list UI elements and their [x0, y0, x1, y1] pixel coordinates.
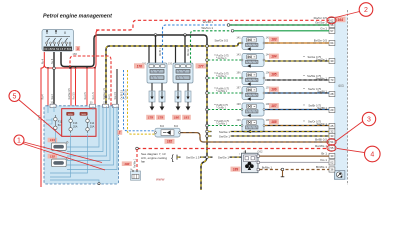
fusebox exit node [98, 183, 100, 185]
svg-text:164: 164 [337, 18, 343, 22]
ECU pin 30 [329, 58, 335, 63]
svg-text:Ge/Bl 0.5: Ge/Bl 0.5 [125, 89, 128, 100]
ECU pin 32 [329, 129, 335, 134]
wire Br/Ws 1 to pin 36 [260, 169, 330, 171]
svg-text:33: 33 [330, 134, 334, 138]
junction [136, 147, 139, 150]
ECU pin 57 [329, 28, 335, 33]
wire Ge/Bl 0.5 (yellow dashed to knock sensor link) [128, 70, 156, 134]
coil 177 supply drop [184, 35, 186, 63]
sensor pins [257, 155, 259, 171]
svg-text:02: 02 [330, 161, 334, 165]
svg-text:135: 135 [50, 154, 55, 158]
fusebox border pin boxes [50, 104, 56, 107]
svg-text:180: 180 [174, 116, 179, 120]
wire red bus left [41, 65, 45, 188]
svg-text:Sw 4: Sw 4 [52, 58, 54, 64]
spark plug 179 [161, 83, 163, 91]
wire Br/Ge 0.5 valve 183 to pin 64 [265, 42, 329, 44]
svg-text:36: 36 [330, 168, 334, 172]
wire Sw/Bl 1 valve 187 to pin 29 [265, 109, 329, 111]
red branch verticals into fusebox [47, 67, 49, 69]
svg-text:188: 188 [271, 120, 277, 124]
svg-text:2: 2 [364, 7, 368, 14]
wire Ro 4 from switch [44, 30, 99, 68]
wire Sw/Ge 1.5 [176, 155, 178, 160]
junction [281, 168, 284, 171]
label 187 [269, 103, 279, 108]
wire Sw/Ge 1 to pin 32 [206, 130, 209, 133]
svg-text:Br/Ws 1: Br/Ws 1 [262, 165, 273, 169]
label 185 [269, 72, 279, 77]
svg-text:20A: 20A [73, 125, 78, 128]
wire Ro/Gr 0.5 (red dashed, ignition feed to ECU pin 62) [96, 20, 329, 30]
svg-text:**: ** [303, 120, 305, 123]
svg-text:Ws/Bl 1: Ws/Bl 1 [160, 47, 162, 56]
ECU pin 02 [329, 160, 335, 165]
fuse group highlight box [62, 109, 96, 137]
coil drops from Sw/Ge rail [148, 45, 150, 47]
ECU pin 73 [329, 77, 335, 82]
svg-text:62: 62 [330, 19, 334, 23]
switch internals [46, 32, 71, 47]
svg-text:5: 5 [13, 93, 17, 100]
label 134 [48, 138, 58, 143]
label 182 [165, 139, 175, 144]
svg-text:Ro/Gr 0.5: Ro/Gr 0.5 [314, 16, 328, 20]
ECU connector band 603 [334, 17, 348, 181]
svg-text:3: 3 [77, 47, 79, 51]
svg-text:* Gn/Ge 1: * Gn/Ge 1 [216, 75, 227, 78]
svg-text:Ro/Ws 1: Ro/Ws 1 [315, 144, 327, 148]
wire Sw/Ge (ignition-on rail from fusebox) [106, 43, 242, 106]
svg-text:186: 186 [72, 52, 77, 56]
label 3 [76, 46, 81, 51]
relay 135 [52, 159, 67, 166]
svg-text:32: 32 [330, 130, 334, 134]
svg-text:Ro 0.5: Ro 0.5 [72, 92, 75, 100]
fusebox internal bus wiring [67, 106, 117, 169]
svg-text:197: 197 [236, 87, 241, 90]
label 190 [122, 161, 132, 166]
svg-text:20A: 20A [90, 125, 95, 128]
svg-text:29: 29 [330, 108, 334, 112]
ECU pin 28 [329, 91, 335, 96]
wire Sw/Ge 1 to sensor 189 [208, 156, 242, 158]
svg-text:Sw/Ge 1.5: Sw/Ge 1.5 [186, 155, 200, 159]
svg-text:Sw/Or 1: Sw/Or 1 [317, 122, 328, 126]
label 176 [134, 63, 145, 68]
wire Gn 1 to pin 57 [234, 30, 330, 32]
component 190 [131, 171, 141, 180]
wire Gn/Sw 1 to pin 58 [230, 24, 330, 26]
svg-text:fan: fan [141, 159, 146, 163]
wire [0, 0, 400, 190]
clover symbol [245, 162, 254, 170]
svg-text:* Gn/Ws 1: * Gn/Ws 1 [216, 90, 228, 93]
wire Br 1 to pin 30 [260, 155, 330, 157]
svg-text:Sw/Ws 1: Sw/Ws 1 [316, 76, 328, 80]
svg-text:Sw/Ge 1: Sw/Ge 1 [218, 155, 229, 159]
svg-text:184: 184 [271, 55, 277, 59]
svg-text:Sw 2.5: Sw 2.5 [114, 92, 117, 100]
fusebox 2 outline [44, 106, 119, 184]
ECU pin 36 [329, 167, 335, 172]
ECU pin 30 [329, 153, 335, 158]
valve 183 feed (Sw/Ge rail end) [206, 45, 209, 48]
wire Br/Bl 0.5 from 182 to pin 54 [181, 133, 330, 142]
spark plug 178 [151, 83, 153, 91]
svg-text:* Gn/Br 1: * Gn/Br 1 [216, 107, 227, 110]
wire Sw/Or 1 valve 188 to pin 25 [265, 125, 329, 127]
svg-text:G62: G62 [257, 150, 263, 154]
svg-text:30: 30 [330, 154, 334, 158]
label 177 [196, 63, 207, 68]
svg-text:Ro 4: Ro 4 [43, 58, 45, 64]
wire Sw/Ge vertical distribution [201, 46, 207, 190]
ECU pin 55 [329, 145, 335, 150]
svg-text:143: 143 [236, 54, 241, 57]
wire Sw/Bl 1 valve 186 to pin 28 [265, 92, 329, 94]
svg-text:604: 604 [160, 125, 165, 128]
svg-text:73: 73 [330, 78, 334, 82]
svg-text:Ws/Gn 1: Ws/Gn 1 [201, 26, 213, 30]
wire Ro 4 second feed [70, 56, 111, 106]
svg-text:www: www [155, 178, 165, 182]
callout 1 [24, 142, 103, 163]
svg-text:Ro/Sw 0.5: Ro/Sw 0.5 [68, 88, 71, 100]
component 182 [155, 128, 180, 137]
valve 183 [242, 37, 264, 50]
svg-text:Sw/Ge 1.5: Sw/Ge 1.5 [103, 88, 106, 100]
ECU pin 54 [329, 139, 335, 144]
svg-text:5A: 5A [58, 124, 61, 127]
svg-text:* Gn/Ws 1: * Gn/Ws 1 [216, 123, 228, 126]
coil 176 supply drop [155, 35, 157, 63]
svg-text:**: ** [303, 56, 305, 59]
svg-text:179: 179 [158, 116, 163, 120]
label 164 [335, 17, 346, 23]
wire Ws/Bl 1 (blue dashed from coil 176) [163, 25, 229, 63]
svg-text:Sw/Bl 1: Sw/Bl 1 [317, 89, 327, 93]
svg-text:199: 199 [236, 119, 241, 122]
svg-text:Br 1: Br 1 [321, 152, 327, 156]
svg-text:Ro 4: Ro 4 [41, 94, 44, 100]
svg-text:**: ** [303, 88, 305, 91]
sensor 189 G62 [242, 153, 259, 173]
svg-text:Sw/Bl 1: Sw/Bl 1 [317, 106, 327, 110]
spark plug 180 [177, 83, 179, 91]
junction [184, 34, 187, 37]
wire Sw 4 (black feed from ignition switch to coils) [61, 35, 207, 67]
svg-text:30: 30 [330, 59, 334, 63]
svg-text:196: 196 [236, 72, 241, 75]
svg-text:Ro 2.5: Ro 2.5 [84, 92, 87, 100]
splice node [231, 30, 234, 33]
svg-text:Or/Bl 0.5: Or/Bl 0.5 [120, 89, 123, 99]
svg-text:Ws/Bl 1: Ws/Bl 1 [203, 20, 214, 24]
valve feed wire Gn/Ge 1 [206, 59, 209, 62]
svg-text:185: 185 [271, 73, 277, 77]
svg-text:Ro/Ws 1: Ro/Ws 1 [134, 158, 137, 168]
wire Ro/Ws 1 drop to 190 [136, 149, 138, 171]
relay 134 [52, 143, 67, 150]
svg-text:1: 1 [17, 137, 21, 144]
svg-text:2: 2 [118, 131, 121, 135]
svg-text:{: { [171, 152, 174, 162]
svg-text:Sw 4: Sw 4 [51, 94, 54, 100]
label 184 [269, 54, 279, 59]
svg-text:190: 190 [124, 162, 129, 166]
callout 2 [336, 12, 360, 18]
splice node [227, 24, 230, 27]
fuse F13 20A [69, 117, 72, 134]
svg-text:Br/Ws 1: Br/Ws 1 [316, 165, 327, 169]
ECU pin 33 [329, 133, 335, 138]
svg-text:604: 604 [174, 125, 179, 128]
label 180 [172, 115, 181, 120]
junction [154, 34, 157, 37]
svg-text:178: 178 [148, 116, 153, 120]
valve 186 [242, 87, 264, 100]
svg-text:Sw/Ge 1: Sw/Ge 1 [219, 134, 230, 138]
label 189 [231, 167, 241, 172]
valve 185 [242, 72, 264, 85]
svg-text:Gn 1: Gn 1 [320, 27, 327, 31]
wire Or/Bl 0.5 (blue dashed to knock sensor link) [124, 70, 156, 131]
junction [206, 156, 209, 159]
valve 184 [242, 54, 264, 67]
callout 5 [19, 100, 62, 137]
svg-text:134: 134 [50, 138, 55, 142]
svg-text:Sw/Ge 1: Sw/Ge 1 [219, 130, 230, 134]
svg-text:300: 300 [51, 102, 56, 105]
ECU pin 62 [329, 18, 335, 23]
svg-text:64: 64 [330, 41, 334, 45]
ECU pin 64 [329, 40, 335, 45]
svg-text:141: 141 [236, 37, 241, 40]
label 181 [182, 115, 191, 120]
wire Ro/Ws 1 to pin 55 [137, 148, 329, 150]
svg-text:57: 57 [330, 29, 334, 33]
svg-text:30 15/54 50 15 P 50b: 30 15/54 50 15 P 50b [44, 47, 72, 51]
svg-text:Sw/Ge 0.5: Sw/Ge 0.5 [215, 39, 229, 43]
svg-text:603: 603 [338, 84, 344, 88]
ignition coil 176 [147, 63, 167, 83]
svg-text:Ro 1.5: Ro 1.5 [92, 92, 95, 100]
label 2 [117, 130, 122, 135]
label 188 [269, 119, 279, 124]
svg-text:198: 198 [236, 103, 241, 106]
label 135 [48, 154, 58, 159]
svg-text:181: 181 [184, 116, 189, 120]
svg-text:Br/Ge 0.5: Br/Ge 0.5 [314, 39, 328, 43]
svg-text:Sw/Ge 1: Sw/Ge 1 [316, 57, 327, 61]
svg-text:182: 182 [167, 140, 173, 144]
ECU bottom connector icon [334, 171, 345, 180]
valve feed wire Gn/Ws 1 [206, 124, 209, 127]
callout 4 [337, 148, 365, 152]
svg-text:Ro 4: Ro 4 [108, 94, 111, 100]
callout 3 [336, 122, 363, 142]
svg-text:Vio 1: Vio 1 [320, 158, 327, 162]
valve 187 [242, 103, 264, 116]
svg-text:150: 150 [168, 63, 173, 66]
spark plug 181 [187, 83, 189, 91]
terminal strip [44, 47, 73, 51]
svg-text:4: 4 [370, 151, 374, 158]
svg-text:M2B: M2B [68, 114, 73, 116]
label 183 [269, 37, 279, 42]
valve feed wire Gn/Ws 1 [206, 92, 209, 95]
label 186 [269, 87, 279, 92]
wire Sw/Ws 1 valve 185 to pin 73 [265, 79, 329, 81]
junction [53, 67, 56, 70]
label 179 [156, 115, 165, 120]
svg-text:54: 54 [330, 140, 334, 144]
svg-text:Ws/Gn 1: Ws/Gn 1 [188, 46, 190, 56]
fuse F12 5A [54, 115, 57, 132]
svg-text:**: ** [303, 104, 305, 107]
svg-text:187: 187 [271, 104, 277, 108]
svg-text:176: 176 [137, 64, 143, 68]
ECU pin 58 [329, 22, 335, 27]
wire Sw 4 into fusebox [53, 52, 55, 106]
ECU pin 29 [329, 107, 335, 112]
wire Sw/Ge 1 valve 184 to pin 30 [265, 60, 329, 62]
wire Ws/Gn 1 (green dashed from coil 177) [191, 31, 233, 63]
svg-text:**: ** [303, 75, 305, 78]
label 178 [146, 115, 155, 120]
svg-text:Petrol engine management: Petrol engine management [43, 14, 112, 20]
valve 188 [242, 119, 264, 132]
svg-text:177: 177 [198, 64, 204, 68]
fuse mini labels [66, 112, 74, 116]
svg-text:Gn/Sw 1: Gn/Sw 1 [315, 21, 327, 25]
ignition coil 177 [173, 63, 193, 83]
svg-text:3: 3 [367, 116, 371, 123]
wire Vio 1 to pin 02 [260, 161, 330, 163]
ignition switch box [42, 30, 74, 52]
fuse F14 20A [86, 117, 89, 134]
svg-text:55: 55 [330, 146, 334, 150]
ground stub [282, 170, 284, 177]
svg-text:* Gn/Ge 1: * Gn/Ge 1 [216, 57, 227, 60]
wire Sw 2.5 [116, 69, 118, 106]
valve feed wire Gn/Br 1 [206, 108, 209, 111]
svg-text:189: 189 [233, 168, 239, 172]
svg-text:Br/Bl 0.5: Br/Bl 0.5 [315, 138, 327, 142]
valve feed wire Gn/Ge 1 [206, 77, 209, 80]
ECU pin 25 [329, 123, 335, 128]
svg-text:25: 25 [330, 124, 334, 128]
svg-text:M4B: M4B [81, 114, 86, 116]
svg-text:183: 183 [271, 38, 277, 42]
svg-text:186: 186 [271, 88, 277, 92]
svg-text:28: 28 [330, 92, 334, 96]
wire Sw/Ge 1 to pin 33 [206, 135, 209, 138]
